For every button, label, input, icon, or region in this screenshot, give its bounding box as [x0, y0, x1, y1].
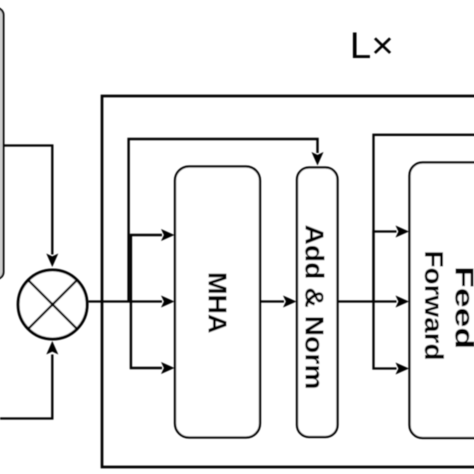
svg-text:Feed: Feed	[450, 266, 474, 349]
arrowhead into Feed Forward middle	[396, 296, 410, 308]
svg-text:Add & Norm: Add & Norm	[300, 225, 330, 390]
block: MHA	[175, 167, 260, 438]
wire: input box to multiplier	[4, 146, 53, 255]
arrowhead into MHA middle	[161, 296, 175, 308]
svg-text:MHA: MHA	[203, 272, 233, 334]
svg-text:L×: L×	[350, 25, 394, 66]
block: Add & Norm	[297, 168, 338, 438]
wire: feedback into multiplier bottom	[0, 355, 52, 419]
svg-text:Forward: Forward	[419, 251, 449, 361]
wire: branch down into Feed Forward	[374, 302, 397, 369]
arrowhead into multiplier top	[46, 254, 58, 268]
wire: MHA to Add & Norm	[260, 300, 284, 302]
wire: branch down into MHA	[131, 300, 162, 368]
arrowhead into Feed Forward top input	[396, 226, 410, 238]
wire: Add & Norm to Feed Forward (main)	[338, 300, 397, 302]
multiplier circle with X	[18, 270, 87, 339]
wire: multiplier output to MHA (main)	[89, 300, 162, 302]
wire: skip connection up and over to Add & Norm	[129, 139, 318, 302]
arrowhead into MHA top input	[161, 229, 175, 241]
arrowhead into MHA bottom input	[161, 362, 175, 374]
arrowhead into Feed Forward bottom input	[396, 363, 410, 375]
arrowhead into Add & Norm top	[312, 152, 324, 166]
wire: skip connection 2 up and off right edge	[374, 135, 474, 302]
wire: branch up into Feed Forward	[374, 232, 397, 302]
arrowhead into multiplier bottom	[46, 341, 58, 355]
block: L-times outer rectangle	[102, 96, 474, 467]
block: Feed Forward (cut off at right edge)	[410, 163, 474, 439]
arrowhead into Add & Norm left	[283, 296, 297, 308]
block: grey input box (cut off at left edge)	[0, 8, 4, 279]
wire: branch up into MHA	[131, 235, 162, 303]
